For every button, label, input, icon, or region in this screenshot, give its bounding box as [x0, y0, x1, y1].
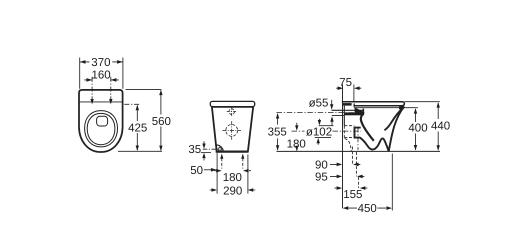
- svg-text:50: 50: [190, 165, 203, 177]
- body sides: [212, 107, 253, 152]
- hinge wedge: [355, 107, 365, 113]
- dim 355: [277, 114, 279, 150]
- svg-text:75: 75: [339, 77, 352, 89]
- svg-text:450: 450: [358, 203, 377, 215]
- interior line: [80, 101, 123, 103]
- o102 centerline: [292, 130, 362, 132]
- bowl front beak: [384, 107, 404, 130]
- body top edge: [212, 106, 253, 108]
- dim 370 arrows: [80, 60, 123, 64]
- tiny target: [218, 148, 221, 151]
- floor line: [277, 150, 441, 152]
- dim 440: [437, 103, 439, 150]
- drain ext dashed staircase: [351, 147, 353, 165]
- dim 560: top ext line: [126, 88, 162, 90]
- 440 ext line: [404, 101, 439, 103]
- dim 90: [330, 163, 360, 165]
- dim 155 row: [335, 187, 368, 189]
- bowl inner back diagonal: [361, 113, 374, 141]
- dim 425 line: [136, 106, 138, 151]
- svg-text:440: 440: [431, 121, 450, 133]
- dim 400: [415, 109, 417, 150]
- rim top line + 400 ext: [354, 107, 418, 109]
- svg-text:400: 400: [408, 123, 427, 135]
- svg-text:370: 370: [91, 57, 110, 69]
- seat outer oval: [85, 111, 118, 147]
- dim 560 line: [160, 90, 162, 150]
- svg-text:180: 180: [287, 138, 306, 150]
- svg-text:180: 180: [223, 172, 242, 184]
- bottom ext line: [118, 150, 162, 152]
- o55 spigot: [332, 109, 363, 111]
- 35 dim: [203, 148, 218, 150]
- svg-text:35: 35: [188, 144, 201, 156]
- dim 290 arrows outside: [210, 189, 256, 191]
- large target: [226, 124, 238, 136]
- svg-text:90: 90: [315, 160, 328, 172]
- seat hinge blob: [399, 106, 404, 110]
- body bottom: [216, 151, 249, 153]
- body outline: [79, 90, 123, 152]
- dim 370 line: [80, 61, 123, 63]
- o55 arrows: [331, 100, 333, 126]
- dim 160 centerlines (dash-dot) with down arrows: [92, 77, 111, 100]
- dim 160 line + outside arrows: [84, 79, 119, 81]
- dim 180 vertical: [296, 123, 298, 151]
- dim 425 dash-dot ref: [124, 103, 140, 105]
- small inner detail: [97, 116, 108, 126]
- o102 arrows: [318, 119, 319, 145]
- svg-text:355: 355: [268, 127, 287, 139]
- seat slab: [342, 102, 405, 106]
- dim 95: [330, 175, 364, 177]
- hidden o102 pipe dashed: [344, 126, 354, 138]
- svg-text:ø55: ø55: [309, 98, 329, 110]
- quarter arc bottom-left: [216, 145, 223, 152]
- svg-text:95: 95: [315, 172, 328, 184]
- wall ext line: [342, 84, 344, 208]
- 50 dim arrow: [204, 168, 217, 172]
- dim 450: [391, 154, 393, 211]
- svg-text:160: 160: [92, 69, 111, 81]
- seat band: [210, 101, 254, 106]
- dim 290 ext lines: [217, 153, 248, 194]
- hidden elbow dashed: [345, 139, 352, 152]
- seat back black: [342, 103, 351, 106]
- o102 ext lines: [319, 125, 334, 127]
- seat inner oval: [87, 113, 115, 144]
- dim 370 ext lines: [80, 58, 123, 89]
- small target: [229, 109, 235, 115]
- svg-text:155: 155: [343, 189, 362, 201]
- bowl outline: pipe socket step + sump + trap hump + foot + front edge: [355, 107, 405, 152]
- svg-text:425: 425: [128, 122, 147, 134]
- fixing dashed lines with up arrows: [222, 158, 243, 168]
- dim 75: [336, 87, 361, 89]
- svg-text:290: 290: [223, 185, 242, 197]
- dim 180 arrows (outside): [214, 170, 251, 172]
- o55 centerline: [277, 112, 363, 114]
- svg-text:ø102: ø102: [306, 127, 332, 139]
- svg-text:560: 560: [152, 116, 171, 128]
